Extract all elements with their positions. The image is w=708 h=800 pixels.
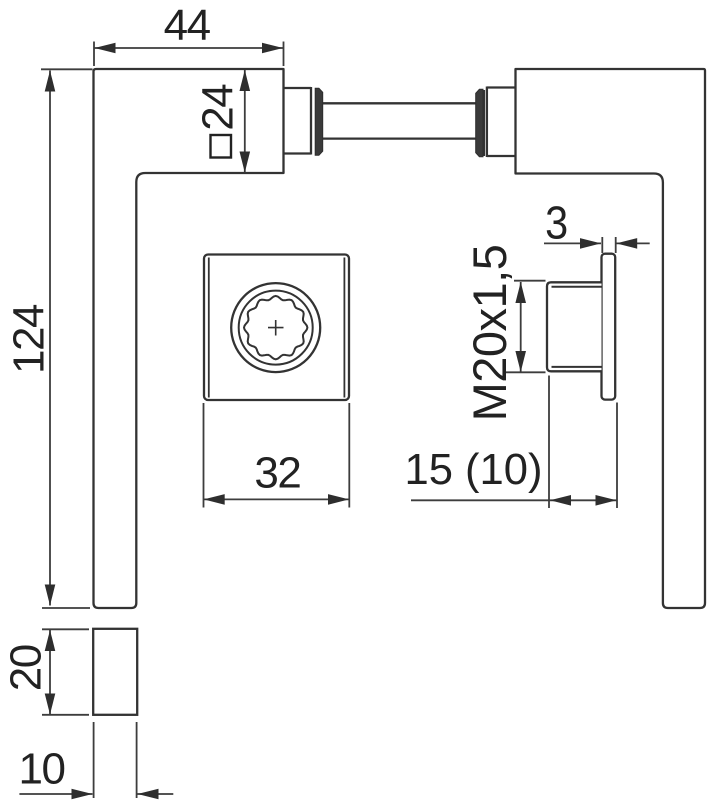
svg-text:M20x1,5: M20x1,5 [463, 245, 516, 422]
svg-text:32: 32 [254, 449, 300, 498]
svg-text:15 (10): 15 (10) [405, 445, 543, 494]
svg-text:44: 44 [164, 1, 211, 50]
svg-text:3: 3 [545, 198, 568, 250]
svg-text:10: 10 [19, 745, 65, 794]
svg-text:124: 124 [5, 304, 54, 374]
svg-text:20: 20 [2, 645, 51, 691]
svg-text:24: 24 [194, 84, 243, 131]
